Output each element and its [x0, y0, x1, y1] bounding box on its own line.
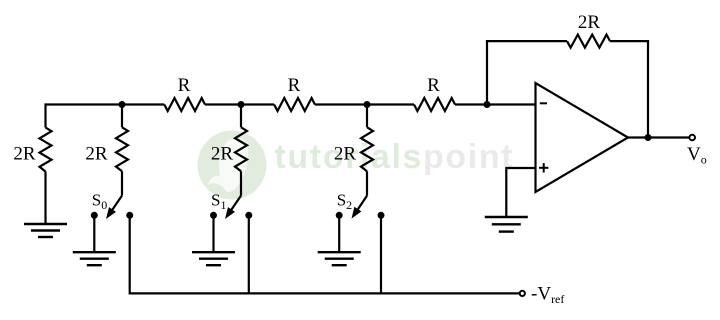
resistor R (second series) [274, 98, 315, 111]
node 4 junction dot [484, 101, 491, 108]
svg-text:S2: S2 [337, 191, 352, 213]
resistor 2R branch 1 [240, 105, 242, 128]
switch S2 ground contact [336, 212, 343, 219]
switch S0 Vref contact [126, 212, 133, 219]
watermark logo circle [198, 131, 267, 200]
svg-text:S0: S0 [92, 191, 107, 213]
node 2 junction dot [238, 101, 245, 108]
switch S1 ground contact [210, 212, 217, 219]
switch S1 blade arrow [230, 196, 241, 212]
-Vref terminal circle [520, 291, 525, 296]
svg-text:2R: 2R [334, 144, 357, 165]
svg-text:R: R [427, 75, 440, 96]
ground [73, 251, 116, 253]
svg-text:2R: 2R [85, 144, 108, 165]
op-amp plus sign [539, 167, 548, 169]
wire: rail between R2 and R3 [315, 103, 414, 105]
svg-text:tutorialspoint: tutorialspoint [275, 138, 515, 176]
svg-text:2R: 2R [578, 12, 601, 33]
wire: feedback top right segment [610, 40, 649, 42]
resistor 2R feedback [567, 35, 610, 48]
output node junction dot [645, 134, 652, 141]
ground (left termination) [24, 223, 67, 225]
wire: non-inverting input to ground [506, 168, 535, 217]
wire: feedback down to output [647, 41, 649, 137]
switch S2 blade arrow [356, 196, 367, 212]
ground [192, 251, 235, 253]
svg-text:2R: 2R [211, 144, 234, 165]
resistor R (third series) [414, 98, 455, 111]
ground [318, 251, 361, 253]
wire: contact 0 down to -Vref bus [130, 215, 520, 293]
svg-text:R: R [178, 75, 191, 96]
switch S0 blade arrow [111, 196, 122, 212]
resistor 2R leftmost termination [44, 103, 46, 127]
node 1 junction dot [119, 101, 126, 108]
output terminal circle [689, 135, 695, 141]
svg-text:2R: 2R [13, 144, 36, 165]
ground (op-amp + input) [485, 216, 528, 218]
wire: rail to op-amp inverting input [455, 103, 537, 105]
wire: feedback up from inverting node [486, 40, 488, 105]
wire: contact 1 down to -Vref bus [248, 215, 250, 293]
switch S0 ground contact [91, 212, 98, 219]
wire: op-amp output [628, 136, 689, 138]
svg-text:Vo: Vo [687, 144, 707, 167]
op-amp minus sign [540, 102, 547, 104]
wire: rail between R1 and R2 [205, 103, 274, 105]
switch S2 Vref contact [378, 212, 385, 219]
resistor 2R branch 0 [121, 105, 123, 128]
wire: feedback top left segment [486, 40, 567, 42]
switch S1 Vref contact [245, 212, 252, 219]
wire: contact 2 down to -Vref bus [380, 215, 382, 293]
svg-text:-Vref: -Vref [531, 283, 564, 306]
resistor R (first series) [164, 98, 205, 111]
op-amp triangle [536, 83, 629, 192]
svg-text:R: R [288, 75, 301, 96]
resistor 2R branch 2 [366, 105, 368, 128]
node 3 junction dot [364, 101, 371, 108]
wire: top rail left segment [46, 103, 165, 105]
